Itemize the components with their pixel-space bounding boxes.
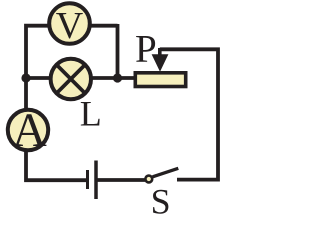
- wire: battery to switch: [98, 178, 146, 182]
- wire: wiper corner, right side down, to switch stub: [160, 49, 218, 179]
- svg-text:A: A: [12, 104, 47, 157]
- wire: left branch from junction A up and right to voltmeter: [26, 26, 49, 80]
- wire: junction A down to ammeter: [24, 78, 28, 110]
- wire: ammeter down, bottom left corner, to battery: [26, 150, 87, 180]
- battery: long plate (positive): [94, 161, 98, 200]
- switch S pivot: [145, 176, 152, 183]
- wire: junction A right to lamp: [24, 76, 52, 80]
- ammeter A: [8, 110, 48, 150]
- rheostat wiper arrow head: [152, 54, 169, 72]
- lamp L (circle with X): [51, 59, 91, 99]
- junction dot A (left): [21, 73, 30, 82]
- svg-text:S: S: [151, 182, 171, 218]
- rheostat P body: [135, 73, 185, 87]
- svg-text:L: L: [80, 93, 102, 133]
- svg-text:P: P: [135, 27, 157, 70]
- wire: voltmeter right to top-right branch corner: [90, 24, 118, 28]
- svg-text:V: V: [56, 5, 84, 47]
- rheostat wiper arrow shaft: [158, 48, 162, 56]
- voltmeter V: [49, 3, 90, 44]
- wire: lamp right through junction B to rheostat: [90, 76, 136, 80]
- wire: right branch vertical down to junction B: [116, 24, 120, 78]
- junction dot B (right): [113, 73, 122, 82]
- switch S blade (open): [153, 168, 179, 177]
- battery: short plate (negative): [86, 170, 89, 189]
